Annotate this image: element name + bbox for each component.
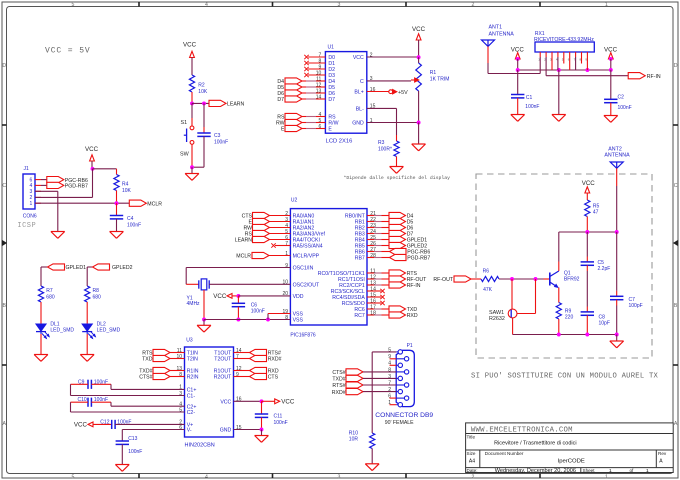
tag RTS# at U3 out: [234, 349, 281, 356]
capacitor C7: [610, 232, 643, 335]
svg-text:CTS#: CTS#: [139, 375, 152, 381]
svg-text:2.2pF: 2.2pF: [598, 266, 611, 272]
svg-text:RC7: RC7: [354, 313, 364, 319]
svg-text:100pF: 100pF: [629, 303, 643, 309]
tag D6 at U2: [367, 224, 413, 231]
junction SAW right: [534, 277, 538, 281]
svg-text:IperCODE: IperCODE: [558, 458, 585, 464]
svg-text:Q1: Q1: [564, 270, 571, 276]
capacitor C12: [100, 420, 131, 429]
svg-text:5: 5: [72, 474, 75, 480]
junction LCD VCC: [417, 55, 421, 59]
svg-text:C3: C3: [214, 133, 221, 139]
svg-text:ANTENNA: ANTENNA: [604, 153, 630, 159]
junction crystal/VSS: [202, 318, 206, 322]
ground below RX1: [552, 115, 566, 122]
junction R9 rail: [557, 333, 561, 337]
tag MCLR: [129, 200, 162, 207]
svg-text:TXD: TXD: [142, 357, 153, 363]
svg-text:LEARN: LEARN: [227, 102, 245, 108]
svg-text:LED_SMD: LED_SMD: [50, 328, 74, 334]
ground below R1: [412, 123, 426, 151]
receiver module RX1: [534, 31, 594, 61]
svg-text:RB7: RB7: [355, 256, 365, 262]
svg-text:C: C: [360, 79, 364, 85]
svg-text:HIN202CBN: HIN202CBN: [185, 443, 215, 449]
tag D5 at U2: [367, 218, 413, 225]
svg-text:10pF: 10pF: [599, 320, 610, 326]
svg-text:MCLR: MCLR: [147, 201, 162, 207]
junction rail pin: [585, 68, 589, 72]
tag RF-IN at U2: [367, 282, 421, 289]
power VCC at C1: [511, 47, 525, 59]
svg-text:VDD: VDD: [293, 294, 304, 300]
svg-text:Rev: Rev: [658, 451, 667, 456]
svg-text:B: B: [674, 303, 678, 309]
LCD module U1: [316, 44, 376, 144]
svg-text:2: 2: [472, 2, 475, 8]
svg-text:PGD-RB7: PGD-RB7: [407, 256, 430, 262]
tag TXD# at P1: [332, 375, 396, 382]
svg-text:GPLED1: GPLED1: [66, 265, 87, 271]
svg-text:680: 680: [46, 295, 55, 301]
tag RTS at U3: [142, 349, 184, 356]
svg-text:VCC: VCC: [85, 146, 99, 153]
svg-text:A4: A4: [469, 459, 475, 465]
ground below C11: [255, 430, 269, 443]
svg-text:TXD#: TXD#: [332, 377, 345, 383]
svg-text:VCC: VCC: [213, 293, 227, 300]
saw resonator SAW1: [489, 279, 536, 335]
svg-text:C2: C2: [618, 95, 625, 101]
junction VSS riser: [266, 318, 270, 322]
svg-text:R4: R4: [122, 182, 129, 188]
svg-text:PGD-RB7: PGD-RB7: [65, 184, 88, 190]
svg-text:RXD: RXD: [407, 313, 418, 319]
svg-text:BFR92: BFR92: [564, 277, 580, 283]
tag RS at U2: [245, 230, 291, 237]
wire P1 pin 5 to R10: [372, 352, 396, 433]
svg-text:OSC1/IN: OSC1/IN: [293, 266, 314, 272]
no-connect pin D1: [304, 61, 325, 65]
svg-text:VCC: VCC: [74, 421, 88, 428]
capacitor C8: [581, 312, 610, 335]
crystal Y1: [187, 279, 210, 307]
svg-text:4: 4: [205, 2, 208, 8]
capacitor C6: [232, 296, 265, 320]
svg-text:D7: D7: [277, 97, 284, 103]
resistor R8: [85, 286, 101, 302]
tag GPLED1 at U2: [367, 236, 427, 243]
svg-text:D7: D7: [328, 97, 335, 103]
label ICSP: [17, 222, 36, 230]
wire VCC stem to junction: [91, 161, 93, 169]
wire RX1 ground rail: [518, 69, 611, 71]
tag RW at U2: [243, 224, 290, 231]
trimmer R1: [411, 57, 449, 91]
tag D4 at LCD: [277, 78, 325, 85]
resistor R9: [556, 303, 573, 335]
no-connect U2 pin at y=303: [367, 301, 385, 305]
wire MCLR net: [35, 202, 129, 204]
wire LCD VCC: [367, 40, 419, 57]
junction SAW left: [510, 277, 514, 281]
svg-text:VSS: VSS: [293, 318, 304, 324]
svg-text:VCC: VCC: [220, 399, 231, 405]
svg-text:S1: S1: [181, 120, 188, 126]
tag GPLED2 at U2: [367, 242, 427, 249]
rs232 driver U3: [176, 338, 241, 449]
svg-text:100nF: 100nF: [127, 222, 141, 228]
svg-text:C11: C11: [274, 414, 283, 420]
svg-text:3: 3: [338, 474, 341, 480]
tag E at LCD: [281, 125, 325, 132]
svg-text:VCC: VCC: [412, 26, 426, 33]
junction C6/VSS rail: [236, 318, 240, 322]
power VCC at U2 VDD: [213, 293, 238, 300]
junction R2/S1: [190, 101, 194, 105]
svg-text:100nF: 100nF: [128, 449, 142, 455]
svg-text:LCD 2X16: LCD 2X16: [326, 138, 353, 144]
svg-text:PIC16F876: PIC16F876: [290, 333, 316, 339]
capacitor C4: [110, 203, 141, 231]
svg-text:RF-OUT: RF-OUT: [433, 277, 453, 283]
svg-text:RXD#: RXD#: [332, 390, 346, 396]
junction ANT2 rail: [615, 230, 619, 234]
wire LCD BL- to R3: [367, 108, 397, 141]
tag TXD at U3: [142, 355, 184, 362]
junction VDD/C6: [236, 294, 240, 298]
wire ANT1 down: [488, 46, 540, 73]
tag RTS at U2: [367, 270, 418, 277]
svg-text:RF-IN: RF-IN: [407, 283, 421, 289]
tag LEARN: [209, 100, 245, 107]
svg-text:GND: GND: [352, 121, 364, 127]
wire VDD: [238, 295, 290, 297]
svg-text:C2-: C2-: [187, 410, 196, 416]
tag RF-OUT at U2: [367, 276, 427, 283]
svg-text:DL1: DL1: [50, 321, 59, 327]
tag PGC-RB6: [41, 177, 88, 184]
svg-text:5: 5: [72, 2, 75, 8]
tag RF-IN: [628, 73, 661, 80]
tag E at U2: [249, 218, 291, 225]
svg-text:R6: R6: [483, 268, 490, 274]
note display dependency: [344, 175, 451, 181]
junction S1/C3 bottom: [190, 165, 194, 169]
tag CTS at U2: [242, 212, 291, 219]
svg-text:LED_SMD: LED_SMD: [97, 328, 121, 334]
power VCC at U3: [262, 399, 295, 406]
svg-text:P1: P1: [407, 343, 413, 349]
wire VSS pin 19: [268, 314, 290, 320]
svg-text:RXD#: RXD#: [268, 357, 282, 363]
svg-text:C13: C13: [128, 436, 137, 442]
svg-text:47K: 47K: [483, 287, 493, 293]
no-connect U2 pin 7: [271, 243, 290, 247]
svg-text:VCC: VCC: [183, 42, 197, 49]
capacitor C2: [604, 70, 632, 116]
ground below DL2: [80, 355, 94, 362]
power +5V at LCD BL+: [367, 90, 408, 97]
no-connect pin D3: [304, 73, 325, 77]
svg-text:RF-IN: RF-IN: [647, 74, 661, 80]
svg-text:J1: J1: [24, 166, 30, 172]
svg-text:LEARN: LEARN: [235, 238, 253, 244]
tag CTS# at U3: [139, 373, 184, 380]
connector J1: [23, 166, 41, 219]
svg-text:RTS#: RTS#: [332, 383, 345, 389]
capacitor C3: [192, 103, 228, 167]
svg-text:100nF: 100nF: [251, 308, 265, 314]
svg-text:R3: R3: [378, 140, 385, 146]
wire C13 to ground: [121, 444, 123, 464]
wire C5 to C8: [586, 265, 588, 312]
no-connect U2 pin at y=297: [367, 295, 385, 299]
power VCC at LCD: [412, 26, 426, 40]
svg-text:4: 4: [205, 474, 208, 480]
wire rail mid to ground: [558, 70, 560, 115]
junction LEARN/C3: [202, 101, 206, 105]
tag D7 at LCD: [277, 96, 325, 103]
svg-text:E: E: [328, 127, 332, 133]
wire VCC junction right to R4: [93, 168, 117, 170]
svg-text:GPLED2: GPLED2: [112, 265, 133, 271]
junction MCLR/R4/C4: [115, 201, 119, 205]
tag TXD at U2: [367, 306, 417, 313]
svg-text:VCC: VCC: [281, 399, 295, 406]
svg-text:WWW.EMCELETTRONICA.COM: WWW.EMCELETTRONICA.COM: [471, 426, 573, 434]
wire C10 to C2+: [91, 402, 184, 406]
wire VCC junction down to J1 pin 2: [35, 169, 93, 198]
power VCC at J1: [85, 146, 99, 161]
svg-text:CTS: CTS: [268, 375, 279, 381]
wire RX1 pin drops: [540, 57, 587, 76]
svg-text:R2632: R2632: [489, 316, 505, 322]
tag PGC-RB6 at U2: [367, 248, 430, 255]
svg-text:C4: C4: [127, 216, 134, 222]
tag RXD at U2: [367, 312, 418, 319]
svg-text:C: C: [674, 183, 678, 189]
title block: [466, 423, 674, 474]
tag D4 at U2: [367, 212, 413, 219]
ground below C2: [604, 116, 618, 123]
junction VCC ANT1 side: [516, 57, 520, 61]
junction C7 rail: [615, 333, 619, 337]
svg-text:2: 2: [472, 474, 475, 480]
svg-text:SW: SW: [180, 152, 190, 158]
svg-text:10R: 10R: [349, 437, 359, 443]
tag LEARN at U2: [235, 236, 291, 243]
svg-text:R7: R7: [46, 288, 53, 294]
svg-text:1: 1: [30, 201, 33, 207]
svg-text:Wednesday, December 20, 2006: Wednesday, December 20, 2006: [495, 468, 576, 474]
wire LCD contrast C to R1 wiper: [367, 80, 411, 82]
tag PGD-RB7: [41, 182, 88, 189]
wire DL2 to ground: [86, 334, 88, 355]
resistor R10: [349, 431, 375, 464]
svg-text:ANTENNA: ANTENNA: [489, 32, 515, 38]
svg-text:GND: GND: [220, 428, 232, 434]
svg-text:U2: U2: [291, 198, 298, 204]
wire VCC to R2: [191, 58, 193, 76]
wire GPLED1 to R7: [40, 267, 42, 286]
svg-text:BL-: BL-: [356, 107, 364, 113]
tag GPLED2: [87, 264, 132, 271]
svg-text:C1-: C1-: [187, 394, 196, 400]
wire Q1 collector: [558, 232, 560, 271]
ground below C13: [115, 465, 129, 472]
tag RXD# at P1: [332, 389, 396, 396]
wire R1 bottom to GND net: [418, 91, 420, 123]
note VCC = 5V: [45, 47, 91, 56]
svg-text:C12: C12: [100, 420, 109, 426]
capacitor C5: [581, 232, 611, 272]
svg-text:ANT1: ANT1: [489, 25, 503, 31]
ground below R3: [390, 167, 404, 174]
svg-text:CONNECTOR DB9: CONNECTOR DB9: [375, 412, 433, 419]
tag CTS at U3 out: [234, 373, 279, 380]
svg-text:BL+: BL+: [354, 90, 363, 96]
VSS rail wire: [204, 319, 290, 321]
ground below Y1: [197, 320, 211, 333]
antenna ANT1: [482, 25, 515, 47]
resistor R2: [189, 75, 207, 103]
svg-text:ICSP: ICSP: [17, 222, 36, 230]
wire R7 to DL1: [40, 302, 42, 324]
svg-text:1K TRIM: 1K TRIM: [430, 77, 450, 83]
svg-text:ANT2: ANT2: [608, 146, 622, 152]
junction rail C2: [609, 68, 613, 72]
svg-text:100nF: 100nF: [618, 105, 632, 111]
junction LCD GND: [417, 121, 421, 125]
svg-text:100R*: 100R*: [378, 147, 392, 153]
svg-text:A: A: [2, 421, 6, 427]
svg-text:B: B: [2, 303, 6, 309]
svg-text:1: 1: [605, 2, 608, 8]
capacitor C9: [78, 379, 108, 389]
svg-text:100nF: 100nF: [525, 104, 539, 110]
wire TX top rail: [559, 231, 617, 233]
resistor R4: [114, 169, 132, 203]
svg-text:Date:: Date:: [467, 468, 478, 473]
ground TX: [610, 335, 624, 348]
svg-text:OSC2/OUT: OSC2/OUT: [293, 282, 320, 288]
resistor R6: [481, 268, 499, 293]
svg-text:VCC = 5V: VCC = 5V: [45, 47, 91, 56]
svg-text:220: 220: [565, 314, 574, 320]
ground below DL1: [34, 355, 48, 362]
connector P1: [375, 343, 433, 426]
no-connect pin D0: [304, 55, 325, 59]
tag D7 at U2: [367, 230, 413, 237]
junction rail C1: [516, 68, 520, 72]
wire LCD GND: [367, 122, 419, 124]
svg-text:E: E: [281, 127, 285, 133]
junction GND/C11: [260, 428, 264, 432]
wire OSC1: [186, 268, 290, 285]
svg-text:U1: U1: [328, 44, 335, 50]
wire VCC to rail right: [610, 59, 612, 70]
tag RTS# at P1: [332, 382, 396, 389]
svg-text:RA5/SS/AN4: RA5/SS/AN4: [293, 244, 323, 250]
svg-text:CTS#: CTS#: [332, 370, 345, 376]
tag TXD# at U3: [139, 367, 184, 374]
tag RW at LCD: [276, 119, 325, 126]
no-connect U2 pin at y=291: [367, 289, 385, 293]
capacitor C10: [78, 397, 109, 407]
junction at VCC/R4 wire: [91, 167, 95, 171]
svg-text:R2OUT: R2OUT: [214, 375, 232, 381]
tag RXD# at U3 out: [234, 355, 282, 362]
svg-text:3: 3: [30, 189, 33, 195]
transistor Q1: [550, 270, 580, 287]
svg-text:3: 3: [338, 2, 341, 8]
tag PGD-RB7 at U2: [367, 254, 430, 261]
replaceable module outline: [476, 174, 652, 358]
svg-text:T2IN: T2IN: [187, 357, 198, 363]
svg-text:R2: R2: [198, 83, 205, 89]
svg-text:100nF: 100nF: [274, 420, 288, 426]
wire R6 to Q1 base: [499, 278, 550, 280]
wire R8 to DL2: [86, 302, 88, 324]
power VCC at R2: [183, 42, 197, 58]
caption AUREL TX: [471, 373, 659, 381]
LED DL2: [82, 321, 120, 338]
svg-text:10K: 10K: [198, 89, 208, 95]
antenna ANT2: [604, 146, 630, 168]
svg-text:DL2: DL2: [97, 321, 106, 327]
switch S1: [180, 103, 194, 167]
svg-text:R2IN: R2IN: [187, 375, 199, 381]
svg-text:VCC: VCC: [353, 55, 364, 61]
svg-text:Sheet: Sheet: [583, 468, 596, 473]
capacitor C1: [511, 70, 539, 115]
microcontroller U2: [282, 198, 376, 339]
junction VCC RF side: [609, 57, 613, 61]
svg-text:Size: Size: [467, 451, 476, 456]
wire U3 VCC: [234, 400, 262, 402]
wire Q1 emitter to R9: [558, 288, 560, 303]
wire R2 junction to LEARN: [192, 102, 209, 104]
wire C9 to C1-: [71, 384, 185, 395]
svg-text:10K: 10K: [122, 188, 132, 194]
svg-text:1: 1: [646, 468, 649, 474]
junction VCC/C11: [260, 399, 264, 403]
svg-text:Title: Title: [467, 434, 476, 439]
wire OSC2: [209, 283, 290, 285]
wire VCC to rail left: [517, 59, 519, 70]
tag RXD at U3 out: [234, 367, 279, 374]
capacitor C13: [116, 436, 143, 455]
junction C8 rail: [585, 333, 589, 337]
capacitor C11: [255, 401, 288, 429]
svg-text:R1: R1: [430, 70, 437, 76]
wire RF-IN from RX1: [546, 75, 628, 77]
wire C12 to V+: [115, 423, 184, 425]
svg-text:D: D: [2, 63, 6, 69]
ground below J1: [51, 232, 65, 239]
svg-text:*Dipende dalle specifiche del: *Dipende dalle specifiche del display: [344, 175, 451, 181]
tag RF-OUT at TX: [433, 276, 481, 283]
svg-text:680: 680: [93, 295, 102, 301]
svg-text:C1+: C1+: [187, 388, 197, 394]
tag CTS# at P1: [332, 369, 396, 376]
tag D5 at LCD: [277, 84, 325, 91]
tag RS at LCD: [277, 113, 325, 120]
svg-text:CON6: CON6: [23, 213, 37, 219]
wire DL1 to ground: [40, 334, 42, 355]
